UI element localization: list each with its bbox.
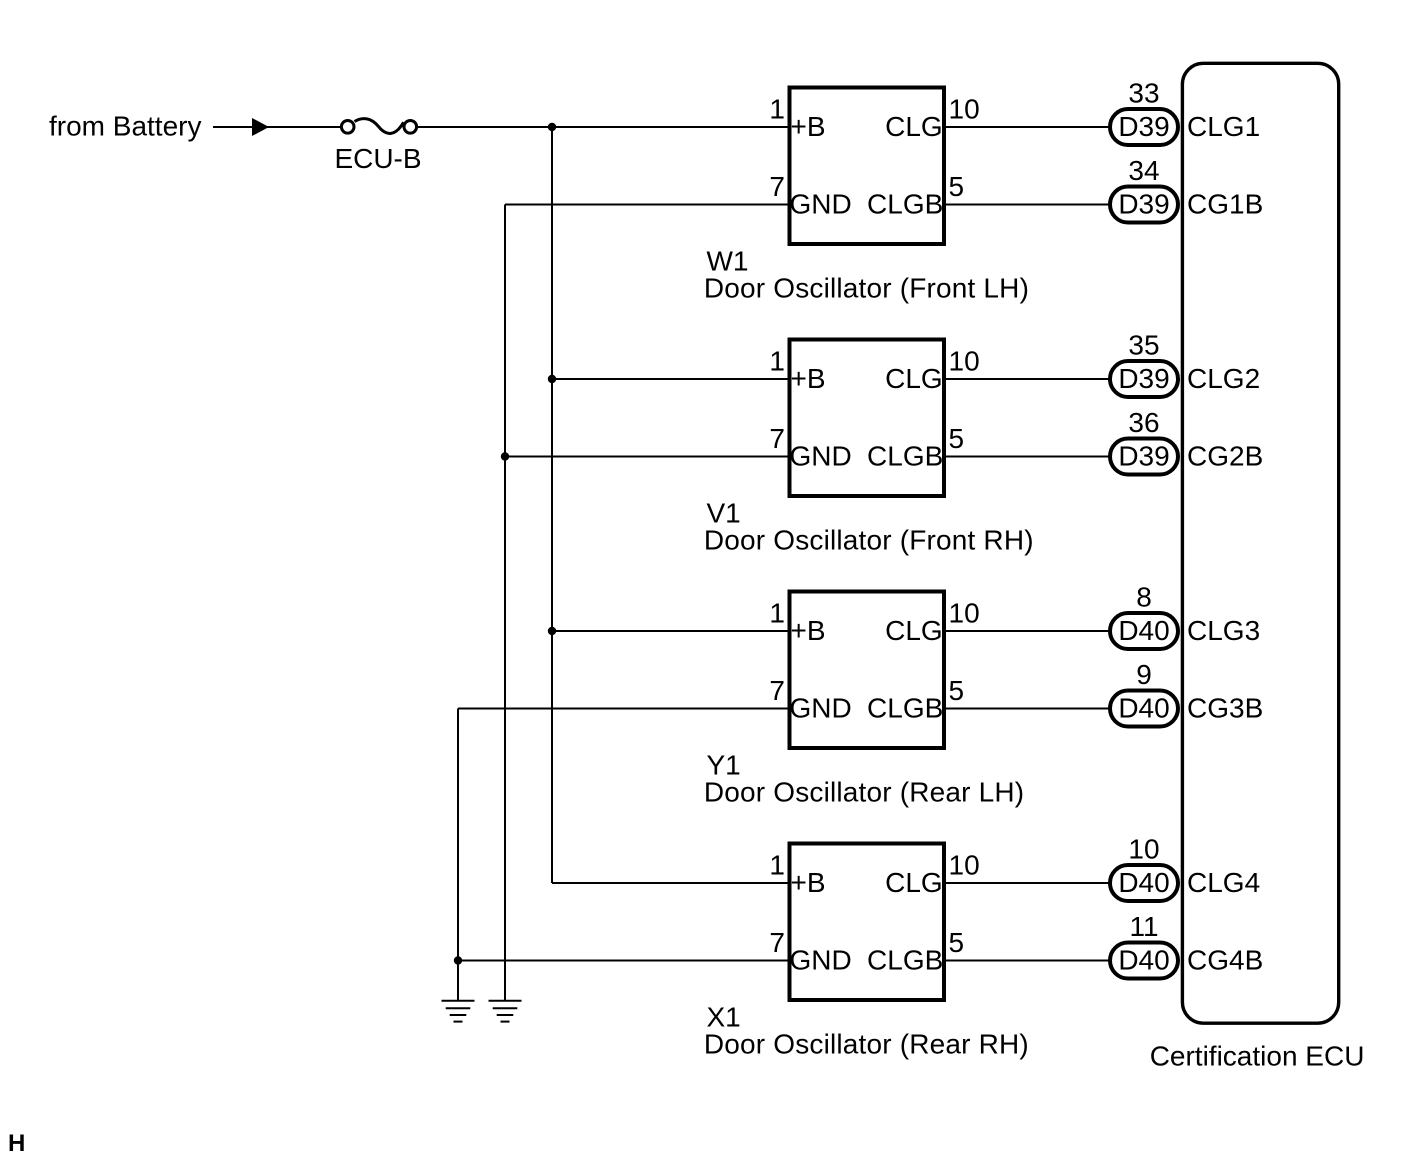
svg-text:D40: D40 (1118, 693, 1169, 724)
svg-text:CLG: CLG (885, 111, 943, 142)
svg-text:+B: +B (791, 615, 826, 646)
svg-text:CLG3: CLG3 (1187, 615, 1260, 646)
svg-text:10: 10 (1128, 834, 1159, 865)
svg-text:GND: GND (790, 693, 852, 724)
svg-text:10: 10 (949, 850, 980, 881)
svg-text:GND: GND (790, 441, 852, 472)
svg-text:CLG: CLG (885, 867, 943, 898)
svg-text:5: 5 (949, 423, 965, 454)
svg-text:10: 10 (949, 598, 980, 629)
svg-text:35: 35 (1128, 330, 1159, 361)
svg-text:5: 5 (949, 171, 965, 202)
svg-text:Door Oscillator (Front LH): Door Oscillator (Front LH) (704, 272, 1029, 303)
svg-text:D40: D40 (1118, 945, 1169, 976)
svg-text:CLG2: CLG2 (1187, 363, 1260, 394)
svg-text:7: 7 (769, 171, 785, 202)
svg-text:7: 7 (769, 927, 785, 958)
svg-text:ECU-B: ECU-B (334, 143, 421, 174)
svg-text:1: 1 (769, 850, 785, 881)
svg-text:7: 7 (769, 675, 785, 706)
svg-text:+B: +B (791, 867, 826, 898)
svg-text:Door Oscillator (Rear LH): Door Oscillator (Rear LH) (704, 776, 1024, 807)
svg-text:33: 33 (1128, 78, 1159, 109)
svg-text:9: 9 (1136, 659, 1152, 690)
svg-text:D40: D40 (1118, 867, 1169, 898)
svg-text:CLG: CLG (885, 615, 943, 646)
svg-text:D39: D39 (1118, 189, 1169, 220)
svg-text:GND: GND (790, 189, 852, 220)
svg-text:Door Oscillator (Rear RH): Door Oscillator (Rear RH) (704, 1028, 1029, 1059)
svg-text:D39: D39 (1118, 111, 1169, 142)
svg-text:D39: D39 (1118, 363, 1169, 394)
svg-text:1: 1 (769, 346, 785, 377)
svg-text:7: 7 (769, 423, 785, 454)
svg-text:H: H (8, 1130, 25, 1157)
svg-text:5: 5 (949, 927, 965, 958)
svg-text:from Battery: from Battery (49, 111, 201, 142)
svg-text:CLGB: CLGB (867, 693, 943, 724)
svg-text:CLGB: CLGB (867, 441, 943, 472)
svg-text:34: 34 (1128, 155, 1159, 186)
svg-text:D40: D40 (1118, 615, 1169, 646)
svg-text:CG1B: CG1B (1187, 189, 1263, 220)
svg-text:10: 10 (949, 346, 980, 377)
svg-text:GND: GND (790, 945, 852, 976)
svg-text:11: 11 (1129, 911, 1158, 942)
svg-text:1: 1 (769, 598, 785, 629)
svg-text:+B: +B (791, 363, 826, 394)
svg-text:CLGB: CLGB (867, 945, 943, 976)
svg-text:CLG1: CLG1 (1187, 111, 1260, 142)
svg-text:10: 10 (949, 94, 980, 125)
svg-text:CLG: CLG (885, 363, 943, 394)
svg-text:CLG4: CLG4 (1187, 867, 1260, 898)
svg-text:36: 36 (1128, 407, 1159, 438)
svg-text:CG2B: CG2B (1187, 441, 1263, 472)
svg-text:CLGB: CLGB (867, 189, 943, 220)
svg-text:1: 1 (769, 94, 785, 125)
svg-text:+B: +B (791, 111, 826, 142)
svg-text:Certification ECU: Certification ECU (1150, 1041, 1365, 1072)
svg-text:8: 8 (1136, 582, 1152, 613)
svg-text:CG3B: CG3B (1187, 693, 1263, 724)
svg-text:5: 5 (949, 675, 965, 706)
svg-text:D39: D39 (1118, 441, 1169, 472)
svg-text:Door Oscillator (Front RH): Door Oscillator (Front RH) (704, 524, 1034, 555)
svg-text:CG4B: CG4B (1187, 945, 1263, 976)
